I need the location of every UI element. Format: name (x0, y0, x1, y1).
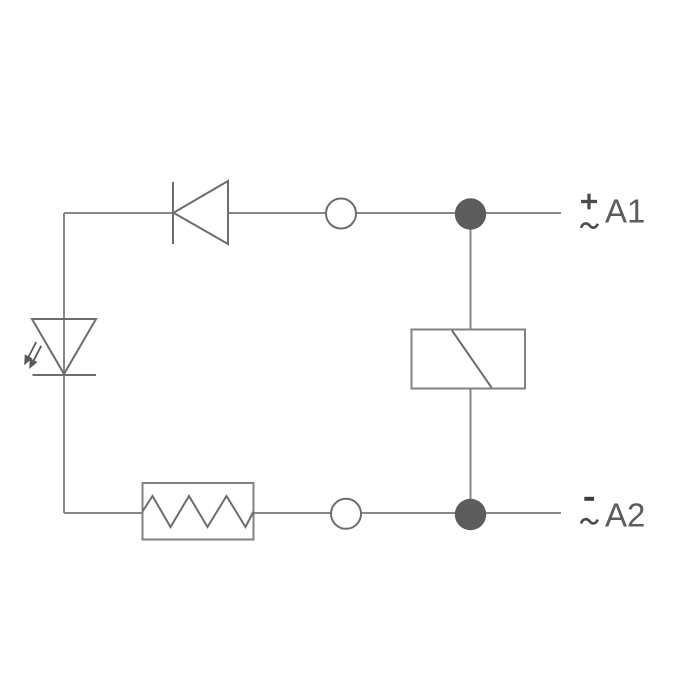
svg-text:A2: A2 (605, 497, 645, 534)
svg-text:A1: A1 (605, 193, 645, 230)
